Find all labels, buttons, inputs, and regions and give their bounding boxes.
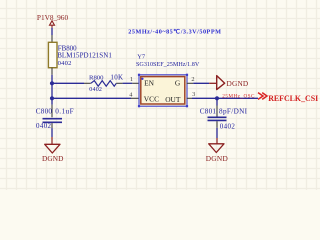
wire C800 to DGND: [51, 128, 53, 137]
svg-text:P1V8_960: P1V8_960: [37, 13, 69, 22]
wire R800 to pin 1: [123, 82, 133, 84]
junction at R800 branch: [50, 81, 54, 85]
svg-text:DGND: DGND: [206, 154, 228, 163]
capacitor C800: [36, 105, 74, 131]
wire junction to C800: [51, 98, 53, 104]
ferrite bead FB800: [48, 35, 112, 75]
oscillator pin 4: [131, 97, 140, 99]
svg-text:SG310SEF_25MHz/1.8V: SG310SEF_25MHz/1.8V: [136, 62, 200, 68]
wire C801 to DGND: [216, 128, 218, 138]
oscillator pin 3: [187, 97, 192, 99]
power port P1V8_960: [37, 13, 69, 28]
ground DGND left: [42, 137, 63, 163]
wire junction to C801: [216, 98, 218, 105]
svg-text:25MHz_OSC: 25MHz_OSC: [222, 94, 255, 100]
svg-text:BLM15PD121SN1: BLM15PD121SN1: [57, 52, 112, 60]
ground DGND below C801: [206, 138, 228, 163]
oscillator pin 1: [132, 82, 139, 84]
oscillator pin 2: [187, 82, 194, 84]
svg-text:G: G: [175, 79, 181, 88]
svg-text:REFCLK_CSI: REFCLK_CSI: [268, 94, 318, 103]
svg-text:8pF/DNI: 8pF/DNI: [219, 108, 248, 116]
wire FB800 to junctions: [51, 75, 53, 99]
port REFCLK_CSI: [258, 93, 318, 103]
svg-text:0402: 0402: [36, 122, 52, 130]
junction at C801 branch: [215, 96, 219, 100]
svg-text:Y7: Y7: [137, 53, 146, 60]
svg-text:25MHz/-40~85℃/3.3V/50PPM: 25MHz/-40~85℃/3.3V/50PPM: [128, 29, 221, 36]
oscillator Y7: [136, 53, 200, 107]
svg-text:VCC: VCC: [144, 95, 159, 104]
svg-text:3: 3: [192, 91, 195, 98]
svg-text:DGND: DGND: [42, 154, 63, 163]
svg-text:0402: 0402: [89, 87, 102, 93]
svg-text:0.1uF: 0.1uF: [55, 108, 74, 116]
svg-text:0402: 0402: [220, 123, 236, 131]
svg-text:1: 1: [130, 76, 133, 83]
junction at VCC branch: [50, 96, 54, 100]
wire G to DGND: [193, 82, 209, 84]
resistor R800: [84, 73, 123, 93]
ground DGND right of G: [209, 76, 248, 90]
wire P1V8 to FB800 pin: [51, 28, 53, 35]
capacitor C801: [200, 106, 248, 131]
svg-text:C801: C801: [200, 108, 217, 116]
svg-text:OUT: OUT: [165, 95, 181, 104]
svg-text:R800: R800: [89, 74, 104, 81]
wire VCC row: [52, 97, 131, 99]
svg-text:2: 2: [191, 76, 194, 83]
wire OUT to port: [192, 97, 258, 99]
wire junction to R800: [52, 82, 84, 84]
svg-text:C800: C800: [36, 108, 53, 116]
svg-text:0402: 0402: [58, 60, 72, 67]
svg-text:DGND: DGND: [227, 79, 249, 88]
svg-text:EN: EN: [144, 79, 155, 88]
svg-text:10K: 10K: [110, 73, 123, 81]
